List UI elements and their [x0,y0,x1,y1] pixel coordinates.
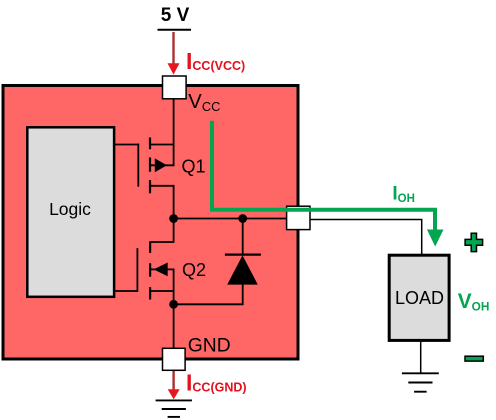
current arrow ICC(GND) [168,371,180,399]
current path IOH (green wire) [212,121,444,247]
Q1 body stub [150,164,175,166]
wire: load to ground [420,340,422,373]
diode cathode bar [225,254,261,256]
pin GND (square) [163,348,186,370]
svg-text:ICC(VCC): ICC(VCC) [186,48,245,74]
svg-text:IOH: IOH [392,183,415,205]
wire: output node to output pin [174,218,288,220]
IC package (shaded red) [3,86,298,360]
ground symbol (right) [402,373,439,391]
Q1 drain stub [150,185,175,187]
pin VCC (square) [163,76,187,99]
junction: output node [169,214,178,223]
Q2 source stub [150,290,174,292]
transistor Q2 (NMOS) [115,241,175,299]
Q2 body stub [150,268,174,270]
svg-text:5 V: 5 V [161,5,190,26]
transistor Q1 (PMOS) [115,138,175,194]
junction: diode return [169,300,178,309]
Q1 body arrow [155,158,167,172]
Q2 body arrow [154,263,168,277]
plus terminal [465,233,483,251]
Q2 drain stub [150,241,174,243]
logic block [27,127,114,296]
diode triangle [227,255,258,284]
Q1 gate bar [137,144,139,187]
diode bottom wire [174,284,243,304]
svg-text:GND: GND [188,336,231,357]
Q1 gate wire from logic [115,144,138,146]
Q1 channel segments [149,138,151,150]
svg-text:VOH: VOH [458,290,490,313]
Q1 source stub [150,144,175,146]
pin output (square) [287,206,310,229]
Q2 channel segments [149,241,151,253]
svg-text:Q1: Q1 [182,156,206,176]
svg-text:Logic: Logic [49,199,91,219]
supply rail bar [158,29,192,31]
junction: diode tap [238,214,247,223]
wire: Q2 source/body down to GND pin [173,269,175,348]
minus terminal [465,356,483,361]
current arrow ICC(VCC) [168,32,180,75]
load block [389,255,449,340]
wire: VCC pin to Q1 source/body [173,99,175,166]
Q2 gate wire from logic [115,290,137,292]
wire: output pin to load [309,220,421,255]
diode top wire [242,219,244,256]
ground symbol (left) [156,400,192,417]
wire: Q1 drain down to output node [173,186,175,242]
svg-text:ICC(GND): ICC(GND) [186,370,247,396]
svg-text:LOAD: LOAD [395,288,444,308]
diode (clamp, GND to output) [174,219,261,305]
Q2 gate bar [136,248,138,292]
svg-text:Q2: Q2 [182,260,206,280]
